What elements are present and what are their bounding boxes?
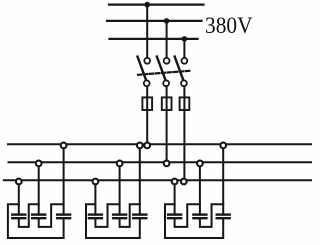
node: bus A terminal of group 2 C6 — [137, 143, 143, 149]
phase bus L3 — [110, 38, 198, 40]
switch QS pole 3 bottom contact — [181, 80, 187, 86]
node: bus B terminal of group 3 C8 — [197, 161, 203, 167]
node: L3 tap junction — [182, 36, 188, 42]
switch QS pole 2 blade — [157, 57, 166, 81]
group 3 link C7 bottom to C8 top — [175, 204, 200, 227]
switch QS pole 1 bottom contact — [144, 80, 150, 86]
node: L1 tap junction — [144, 2, 150, 8]
phase bus L2 — [107, 20, 202, 22]
switch QS pole 2 bottom contact — [163, 80, 169, 86]
group 2 link C4 bottom to C5 top — [95, 204, 119, 227]
wire: bus C tap to group 1 capacitor C1 — [18, 182, 20, 215]
wire: pole 2 to fuse FU2 — [166, 86, 168, 97]
switch QS pole 3 blade — [175, 57, 184, 81]
wire: bus A tap to group 2 capacitor C6 — [139, 145, 141, 214]
fuse FU1 — [142, 97, 152, 110]
fuse FU1 element wire — [146, 97, 148, 110]
wire: fuse FU3 to distribution bus C — [183, 110, 185, 180]
capacitor C5 bottom plate — [113, 217, 126, 219]
switch QS pole 2 top contact — [164, 58, 170, 64]
wire: bus B tap to group 2 capacitor C5 — [119, 163, 121, 214]
capacitor C8 bottom plate — [193, 217, 206, 219]
capacitor C8 top plate — [193, 213, 206, 215]
wire: L2 drop to switch pole 2 — [166, 21, 168, 58]
node: bus A terminal of group 3 C9 — [220, 143, 226, 149]
capacitor C9 top plate — [217, 213, 230, 215]
switch QS mechanical linkage (dashed) — [138, 71, 190, 75]
wire: bus B tap to group 1 capacitor C2 — [38, 163, 40, 214]
capacitor C5 top plate — [113, 213, 126, 215]
wire: bus B tap to group 3 capacitor C8 — [199, 163, 201, 214]
node: bus B terminal of group 1 C2 — [36, 161, 42, 167]
wire: L3 drop to switch pole 3 — [183, 39, 185, 58]
wire: bus C tap to group 2 capacitor C4 — [94, 182, 96, 215]
group 2 link C5 bottom to C6 top — [120, 204, 140, 227]
phase bus L1 — [109, 3, 204, 5]
wire: L1 drop to switch pole 1 — [146, 5, 148, 58]
group 1 link C1 bottom to C2 top — [19, 204, 39, 227]
capacitor C3 top plate — [57, 213, 70, 215]
capacitor C2 bottom plate — [32, 217, 45, 219]
switch QS pole 3 top contact — [182, 58, 188, 64]
capacitor C6 bottom plate — [133, 217, 146, 219]
group 1 delta loop wiring — [8, 204, 64, 238]
node: bus C terminal of group 2 C4 — [93, 179, 99, 185]
group 1 link C2 bottom to C3 top — [39, 204, 64, 227]
capacitor C9 bottom plate — [217, 217, 230, 219]
switch QS pole 1 top contact — [144, 58, 150, 64]
capacitor C2 top plate — [32, 213, 45, 215]
wire: pole 1 to fuse FU1 — [146, 86, 148, 97]
fuse FU2 element wire — [166, 97, 168, 110]
label 380V — [205, 13, 253, 40]
node: bus C terminal of fuse FU3 — [181, 179, 187, 185]
fuse FU2 — [162, 97, 172, 110]
capacitor C1 bottom plate — [12, 217, 25, 219]
distribution bus A — [8, 143, 312, 145]
distribution bus C — [4, 179, 312, 181]
wire: fuse FU2 to distribution bus B — [166, 110, 168, 162]
node: bus A terminal of group 1 C3 — [61, 143, 67, 149]
node: bus C terminal of group 3 C7 — [172, 179, 178, 185]
capacitor C4 bottom plate — [89, 217, 102, 219]
wire: bus C tap to group 3 capacitor C7 — [174, 182, 176, 215]
group 2 delta loop wiring — [86, 204, 140, 238]
wire: fuse FU1 to distribution bus A — [146, 110, 148, 144]
node: L2 tap junction — [164, 18, 170, 24]
wire: bus A tap to group 1 capacitor C3 — [63, 145, 65, 214]
capacitor C1 top plate — [12, 213, 25, 215]
switch QS pole 1 blade — [138, 57, 147, 81]
wire: pole 3 to fuse FU3 — [183, 86, 185, 97]
node: bus A terminal of fuse FU1 — [144, 143, 150, 149]
group 3 link C8 bottom to C9 top — [200, 204, 223, 227]
capacitor C3 bottom plate — [57, 217, 70, 219]
capacitor C6 top plate — [133, 213, 146, 215]
group 3 delta loop wiring — [165, 204, 223, 238]
fuse FU3 element wire — [183, 97, 185, 110]
fuse FU3 — [180, 97, 190, 110]
distribution bus B — [9, 161, 313, 163]
node: bus B terminal of fuse FU2 — [164, 161, 170, 167]
node: bus C terminal of group 1 C1 — [16, 179, 22, 185]
capacitor C7 top plate — [168, 213, 181, 215]
wire: bus A tap to group 3 capacitor C9 — [222, 145, 224, 214]
capacitor C7 bottom plate — [168, 217, 181, 219]
node: bus B terminal of group 2 C5 — [117, 161, 123, 167]
capacitor C4 top plate — [89, 213, 102, 215]
